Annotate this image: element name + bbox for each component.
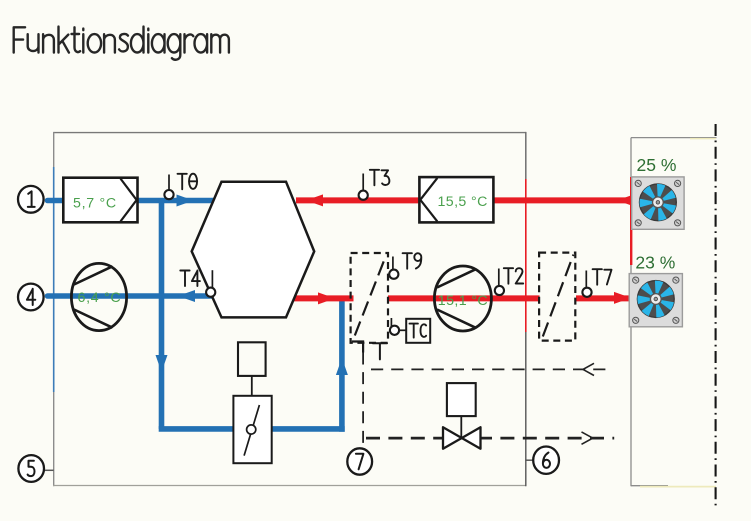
blue loop up arrow [336,358,348,375]
pump P1 chords [74,266,113,327]
blue pipe row2 flow arrow [178,290,195,302]
blue vertical pipe left drop [159,198,165,429]
sensor T8 [168,175,170,191]
blue exhaust pipe row2 [48,293,215,299]
blue loop down arrow [156,355,168,372]
red pipe row1 arrow at fan [617,194,634,206]
valve V2 actuator box [447,383,476,416]
extract fan 25% [632,177,684,229]
pump P2 chords [437,269,476,328]
node 5 connector [44,469,54,471]
duct top edge [631,137,717,139]
sensor T4 [211,270,213,288]
AHU casing left border blue mid [53,167,55,392]
duct left edge red segment [630,177,632,265]
node 4 [18,284,44,311]
control dashed line upper [371,368,609,370]
blue outdoor-air pipe row1 [48,198,218,204]
red pipe row1 arrow at hexagon [306,194,323,206]
valve V1 body [233,396,271,463]
AHU casing right border gray upper [525,132,527,179]
svg-text:15,5 °C: 15,5 °C [438,194,488,210]
sensor T9 [392,257,394,271]
red supply pipe row2 seg2 [388,295,540,301]
svg-text:5,7 °C: 5,7 °C [73,195,117,211]
red supply pipe row2 seg1 [293,295,354,301]
svg-text:23 %: 23 % [635,253,675,273]
node 6 connector [525,459,533,461]
damper FR1 linkage [352,342,363,353]
blue pipe row1 flow arrow [177,195,194,207]
sensor T7 [585,271,587,289]
damper FR1 blade diagonal [355,256,386,336]
coil box F2 [419,177,493,222]
node 7 [347,448,372,474]
controller box TC [406,319,430,343]
red extract-air pipe row1 [296,197,631,203]
heat exchanger hexagon [192,182,315,318]
coil box F2 diagonals [420,178,437,221]
red pipe row2 arrow at fan [614,292,631,304]
node 1 [18,186,44,213]
filter box F1 diagonals [121,179,137,222]
damper FR2 blade diagonal [543,255,574,337]
title Funktionsdiagram [14,27,229,60]
node 5 [18,455,44,482]
valve V1 internals [244,405,259,456]
red pipe row2 arrow after hexagon [318,292,335,304]
blue loop bottom pipe [159,426,345,432]
AHU casing top border [54,132,526,134]
AHU casing left border gray lower [53,392,55,486]
system boundary dash-dot line [715,124,717,508]
blue loop right vertical pipe [339,296,345,432]
svg-text:6,4 °C: 6,4 °C [78,290,122,306]
svg-text:15,1 °C: 15,1 °C [438,293,488,309]
sensor T3 [362,174,364,192]
sensor TC bulb [390,318,392,327]
damper FR1 dashed box [351,253,388,343]
valve V2 body bowtie [443,427,481,449]
AHU casing right border red mid [525,179,527,332]
supply fan 23% [629,274,682,327]
sensor T2 [498,269,500,287]
red supply pipe row2 seg3 [576,295,631,301]
filter box F1 [63,178,137,223]
control dashed line lower [366,437,614,440]
AHU casing bottom border [53,485,526,487]
valve V1 actuator box [238,342,266,376]
AHU casing left border gray upper [53,132,55,167]
duct top edge yellow part [690,138,716,140]
duct bottom edge yellow part [640,486,716,488]
duct left edge [630,138,632,487]
damper FR1 label T [373,343,387,359]
node 6 [533,447,559,474]
exhaust fan pump P1 [71,263,126,330]
duct bottom edge [631,485,668,487]
control line upper open arrow [583,363,594,375]
supply fan pump P2 [434,266,491,331]
control dashed vertical to node 7 [362,353,364,450]
damper FR2 dashed box [539,253,575,341]
svg-text:25 %: 25 % [637,155,677,175]
valve V1 actuator stem [251,376,253,396]
valve V2 stem [460,416,462,438]
AHU casing right border gray lower [525,332,527,486]
control line lower open arrow [582,432,593,444]
